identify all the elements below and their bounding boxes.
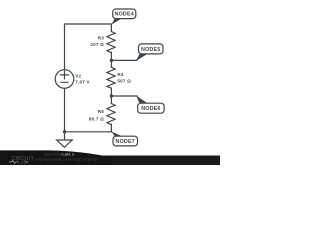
wire left rail upper (64, 24, 66, 70)
wire top (65, 23, 112, 25)
wire left rail lower (64, 88, 66, 132)
junction node6 (110, 94, 113, 97)
svg-text:R5: R5 (98, 109, 105, 114)
junction node5 (110, 59, 113, 62)
node flag NODE6 (136, 95, 164, 113)
svg-text:R4: R4 (117, 72, 124, 77)
node flag NODE4 (111, 9, 136, 25)
resistor R4 (107, 67, 115, 88)
svg-text:jmm1703 / Lab1 3: jmm1703 / Lab1 3 (43, 153, 74, 157)
voltage source V2 (55, 70, 74, 89)
wire bottom (65, 131, 112, 133)
svg-text:NODE4: NODE4 (115, 12, 134, 18)
wire node5 stub (111, 59, 137, 61)
wire R3 to R4 (110, 53, 112, 68)
watermark footer strip (0, 156, 220, 166)
svg-text:V2: V2 (75, 74, 81, 79)
wire right rail top lead (110, 24, 112, 32)
resistor R5 (107, 104, 115, 125)
label R4 (117, 72, 131, 84)
svg-text:7.07 V: 7.07 V (75, 80, 90, 85)
watermark badge (0, 150, 111, 165)
ground (57, 132, 73, 148)
label R5 (89, 109, 104, 121)
label R3 (90, 35, 104, 47)
svg-text:http://circuitlab.com/c42g7GXp: http://circuitlab.com/c42g7GXpk452 (35, 157, 98, 161)
svg-text:80.7 Ω: 80.7 Ω (89, 117, 104, 122)
svg-text:NODE6: NODE6 (141, 106, 160, 112)
logo CircuitLab (9, 156, 34, 164)
node flag NODE7 (111, 131, 137, 146)
svg-text:507 Ω: 507 Ω (117, 79, 131, 84)
resistor R3 (107, 32, 115, 53)
wire R4 to R5 (110, 88, 112, 103)
svg-text:207 Ω: 207 Ω (90, 42, 104, 47)
svg-text:NODE7: NODE7 (116, 139, 135, 145)
label V2 value (75, 74, 90, 85)
wire node6 stub (111, 95, 137, 97)
svg-text:R3: R3 (98, 35, 105, 40)
junction ground node (63, 130, 66, 133)
wire R5 to bottom corner (110, 125, 112, 132)
node flag NODE5 (136, 44, 163, 61)
svg-text:NODE5: NODE5 (141, 47, 160, 53)
